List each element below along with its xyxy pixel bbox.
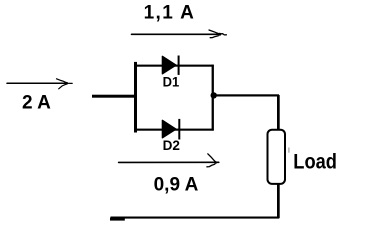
artifact gray tick <box>288 148 289 153</box>
svg-text:D1: D1 <box>163 74 180 90</box>
wire top branch <box>136 65 214 67</box>
wire output horizontal <box>213 94 279 96</box>
diode D2 <box>162 119 180 140</box>
wire bottom return <box>111 217 280 219</box>
svg-text:0,9 A: 0,9 A <box>154 175 199 196</box>
svg-text:1,1 A: 1,1 A <box>144 2 196 23</box>
arrow top (current direction D1 branch) <box>132 30 227 38</box>
wire load bottom <box>277 184 280 218</box>
wire bottom-left overdraw <box>110 218 125 221</box>
diode D1 <box>162 56 179 75</box>
node left bus bar <box>134 62 137 133</box>
svg-text:2 A: 2 A <box>22 92 51 113</box>
wire input stub <box>92 95 136 98</box>
resistor Load <box>268 130 286 184</box>
wire bottom branch <box>136 129 214 131</box>
arrow bottom (current direction D2 branch) <box>119 154 219 167</box>
svg-text:D2: D2 <box>163 138 181 153</box>
arrow left (input current direction) <box>7 79 72 89</box>
wire down to load <box>277 95 280 130</box>
svg-text:Load: Load <box>293 150 337 173</box>
node junction dot <box>211 92 217 98</box>
wire right vertical of diode loop <box>212 65 214 131</box>
